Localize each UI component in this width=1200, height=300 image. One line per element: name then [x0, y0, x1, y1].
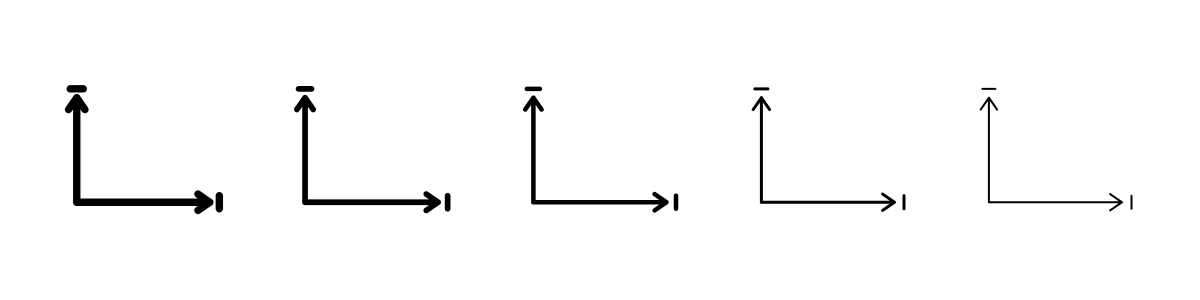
horizontal arrow shaft [533, 200, 666, 205]
horizontal arrow shaft [305, 199, 438, 205]
vertical arrowhead [297, 98, 313, 110]
axes icon weight 4 [753, 89, 904, 211]
axes icon weight 1 (boldest) [69, 89, 220, 211]
top limit bar [755, 87, 768, 90]
horizontal arrow shaft [989, 201, 1122, 203]
vertical arrowhead [981, 98, 997, 110]
vertical arrow shaft [73, 98, 80, 203]
top limit bar [982, 88, 995, 90]
right limit bar [445, 196, 451, 209]
top limit bar [299, 86, 312, 92]
right limit bar [1131, 196, 1133, 209]
vertical arrow shaft [531, 98, 536, 203]
horizontal arrow shaft [77, 199, 210, 206]
top limit bar [527, 87, 540, 92]
horizontal arrowhead [426, 194, 438, 210]
vertical arrow shaft [988, 98, 990, 203]
vertical arrow shaft [760, 98, 763, 203]
right limit bar [216, 196, 223, 209]
top limit bar [70, 85, 83, 92]
vertical arrowhead [69, 98, 85, 110]
vertical arrowhead [753, 98, 769, 110]
horizontal arrow shaft [761, 201, 894, 204]
axes icon weight 5 (thinnest) [981, 89, 1132, 211]
axes icon weight 2 [297, 89, 448, 211]
vertical arrowhead [525, 98, 541, 110]
horizontal arrowhead [883, 194, 895, 210]
right limit bar [674, 196, 679, 209]
horizontal arrowhead [198, 194, 210, 210]
vertical arrow shaft [302, 98, 308, 203]
horizontal arrowhead [655, 194, 667, 210]
right limit bar [903, 196, 906, 209]
horizontal arrowhead [1110, 194, 1122, 210]
axes icon weight 3 [525, 89, 676, 211]
